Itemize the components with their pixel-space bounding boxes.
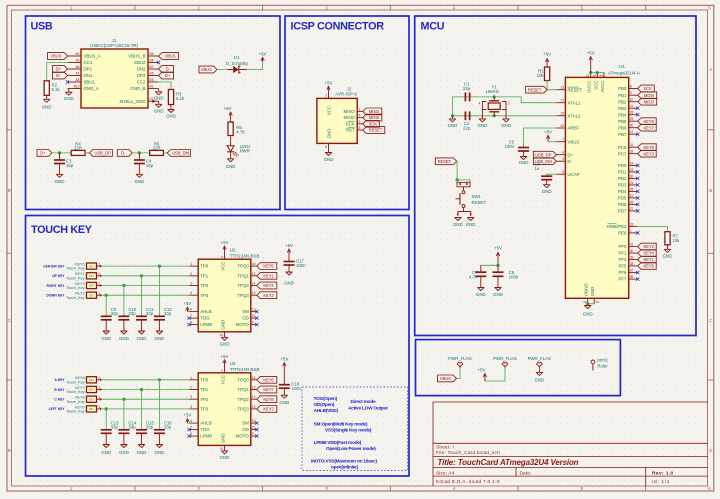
svg-text:KEY1: KEY1 (263, 273, 274, 278)
power +5V (C7 C8) (494, 246, 502, 266)
svg-text:LPMB: LPMB (200, 434, 212, 439)
svg-text:GND: GND (453, 222, 463, 227)
svg-text:print1: print1 (597, 357, 608, 362)
wire pwrflag1 to VBUS (457, 369, 461, 379)
global label VBUS (J1 right) (159, 53, 179, 60)
svg-text:GND: GND (221, 433, 226, 443)
no-connect U2 SM (255, 310, 258, 313)
no-connect PD5 (636, 196, 639, 199)
svg-text:33p: 33p (164, 425, 172, 430)
ground below C14 (119, 433, 129, 455)
svg-text:B12: B12 (74, 85, 80, 89)
svg-text:B8: B8 (150, 59, 154, 63)
svg-text:KEY: KEY (89, 274, 94, 278)
svg-text:TTP224N-BSB: TTP224N-BSB (230, 253, 260, 258)
ground below C8 (493, 276, 503, 297)
capacitor C13 (101, 420, 119, 433)
connector J1 USB-C(CSP-USC16-TR) (68, 38, 159, 108)
wire KEY7 to U3 TP1 (97, 388, 190, 390)
capacitor C10 (118, 307, 136, 320)
global label KEY8 (MCU) (638, 118, 657, 125)
svg-text:+5V: +5V (224, 106, 232, 111)
wire pwrflag2 to +5V (485, 369, 505, 381)
svg-text:KEY: KEY (89, 378, 94, 382)
svg-text:B: B (8, 188, 11, 193)
svg-text:SBU1: SBU1 (84, 80, 96, 85)
svg-text:PD7: PD7 (618, 209, 627, 214)
svg-text:2: 2 (508, 102, 510, 106)
svg-text:Touch_Key: Touch_Key (66, 410, 84, 414)
svg-text:U3: U3 (230, 361, 236, 366)
capacitor C14 (118, 420, 136, 433)
power +5V (VBUS pin) (544, 129, 552, 141)
svg-text:33p: 33p (146, 425, 154, 430)
svg-text:30: 30 (630, 124, 634, 128)
svg-text:DN2: DN2 (137, 67, 146, 72)
no-connect U2 LPMB (188, 323, 191, 326)
svg-text:GND: GND (583, 311, 593, 316)
svg-text:Sheet: /: Sheet: / (436, 445, 454, 451)
junction D- C4 (138, 151, 141, 154)
resistor R4 (71, 141, 85, 155)
svg-text:GND: GND (137, 336, 147, 341)
svg-text:Touch_Key: Touch_Key (66, 286, 84, 290)
capacitor C9 (101, 307, 119, 320)
svg-text:10k: 10k (537, 73, 545, 78)
led LED1 PWR (227, 137, 251, 157)
ground below C7 (476, 276, 486, 297)
svg-text:MCU: MCU (421, 21, 445, 33)
power +5V (U2 VCC) (221, 240, 229, 254)
svg-text:TPQ0: TPQ0 (237, 264, 249, 269)
svg-text:RIGHT KEY: RIGHT KEY (47, 284, 66, 288)
svg-text:5: 5 (581, 486, 584, 491)
capacitor C17 (284, 258, 307, 268)
capacitor C6 (535, 161, 553, 179)
svg-text:VCC: VCC (221, 261, 226, 270)
resistor R7 (665, 232, 680, 245)
ground below R3 (166, 105, 176, 119)
connector J2 AVR-ISP-6 (317, 87, 363, 150)
global label D- (filter) (117, 150, 132, 157)
svg-text:SCK: SCK (346, 121, 355, 126)
wire MCU gnd (588, 303, 595, 305)
power +5V (U3 AHLB) (183, 413, 191, 423)
ground crystal case right (501, 119, 511, 128)
svg-text:GND: GND (137, 450, 147, 455)
svg-text:GND: GND (119, 336, 129, 341)
svg-text:GND: GND (279, 400, 289, 405)
svg-text:100n: 100n (509, 274, 519, 279)
svg-text:PF1: PF1 (618, 251, 627, 256)
svg-text:+5V: +5V (280, 357, 288, 362)
global label D+ (J1 left) (53, 66, 68, 73)
mcu U1 ATmega32U4-A (556, 64, 640, 304)
svg-text:16: 16 (252, 376, 256, 380)
junction KEY7 row (140, 388, 143, 391)
svg-text:RESET: RESET (528, 87, 542, 92)
power +5V (C17) (285, 243, 293, 261)
svg-text:OD: OD (242, 427, 249, 432)
wire KEY8 to U3 TP2 (97, 398, 190, 400)
svg-text:PE6: PE6 (618, 231, 627, 236)
junction VCC (596, 71, 599, 74)
svg-text:KEY3: KEY3 (263, 407, 274, 412)
svg-text:33p: 33p (164, 311, 172, 316)
capacitor C4 (134, 153, 154, 168)
svg-text:PB7: PB7 (618, 132, 627, 137)
svg-text:1: 1 (630, 229, 632, 233)
junction SHELL_GND (152, 100, 155, 103)
svg-text:Date:: Date: (520, 471, 532, 477)
global label RESET (ICSP) (363, 127, 385, 134)
wire CC2 to R3 (159, 82, 172, 90)
svg-text:KEY: KEY (89, 407, 94, 411)
svg-text:22p: 22p (463, 86, 471, 91)
global label KEY3 (MCU) (638, 150, 657, 157)
svg-text:Direct mode: Direct mode (351, 399, 376, 404)
svg-text:U1: U1 (619, 64, 625, 69)
svg-text:GND: GND (101, 450, 111, 455)
svg-text:Title: TouchCard ATmega32U4 Ve: Title: TouchCard ATmega32U4 Version (438, 458, 579, 467)
svg-text:GND: GND (166, 113, 176, 118)
svg-text:File: Touch_Card.kicad_sch: File: Touch_Card.kicad_sch (436, 450, 500, 456)
svg-text:GND: GND (519, 160, 529, 165)
svg-text:USB-C(CSP-USC16-TR): USB-C(CSP-USC16-TR) (90, 43, 138, 48)
ground below C12 (155, 320, 165, 341)
svg-text:32: 32 (630, 150, 634, 154)
svg-text:+5V: +5V (325, 80, 333, 85)
junction KEY1 row (140, 274, 143, 277)
ground GND_A (64, 89, 74, 102)
junction KEY3 row (122, 284, 125, 287)
svg-text:PWR: PWR (240, 149, 250, 154)
junction C8 rail (496, 264, 499, 267)
svg-text:RESET: RESET (567, 87, 582, 92)
svg-text:MOTO: MOTO (236, 322, 250, 327)
touch pad KEY8 (66, 395, 100, 403)
svg-text:KEY7: KEY7 (643, 125, 654, 130)
global label KEY9 (MCU) (638, 144, 657, 151)
global label USB_DM (MCU) (533, 158, 556, 165)
svg-text:PB3: PB3 (618, 106, 627, 111)
power +5V (U2 AHLB) (183, 301, 191, 311)
key name LEFT KEY (49, 407, 66, 411)
svg-text:4: 4 (562, 151, 564, 155)
svg-text:ICSP CONNECTOR: ICSP CONNECTOR (291, 21, 385, 33)
svg-text:6: 6 (190, 308, 192, 312)
svg-text:GND: GND (154, 109, 164, 114)
wire KEY2 to U2 TP3 (97, 294, 190, 296)
svg-text:MOTO: MOTO (236, 434, 250, 439)
power +5V (ICSP) (325, 80, 333, 92)
svg-text:1: 1 (190, 262, 192, 266)
svg-text:MOSI: MOSI (369, 115, 379, 120)
ground below C5 (519, 151, 529, 165)
svg-text:10: 10 (220, 333, 224, 337)
svg-text:TOG(Open): TOG(Open) (314, 396, 338, 401)
svg-text:2: 2 (325, 94, 327, 98)
power +5V (pwr flag) (478, 367, 487, 381)
no-connect PD2 (636, 177, 639, 180)
junction D+ C3 (58, 151, 61, 154)
capacitor C16 (154, 420, 172, 433)
svg-text:PD2: PD2 (618, 176, 627, 181)
svg-text:GND: GND (220, 455, 230, 460)
svg-text:5.1k: 5.1k (52, 87, 61, 92)
svg-text:Touch_Key: Touch_Key (66, 390, 84, 394)
svg-text:VBUS: VBUS (165, 54, 176, 59)
svg-text:SHELL_GND: SHELL_GND (119, 99, 145, 104)
svg-text:KEY7: KEY7 (263, 387, 274, 392)
svg-text:5.1k: 5.1k (176, 96, 185, 101)
capacitor C8 (493, 265, 519, 279)
svg-text:A4: A4 (75, 52, 79, 56)
svg-text:4: 4 (453, 486, 456, 491)
title block (433, 402, 708, 486)
svg-text:TP0: TP0 (200, 264, 209, 269)
power flag 3 (GND) (528, 356, 552, 369)
svg-text:GND: GND (155, 336, 165, 341)
svg-text:RESET: RESET (472, 200, 487, 205)
svg-text:GND: GND (535, 377, 545, 382)
global label VBUS (to D1) (199, 66, 217, 73)
global label D+ (J1 right) (159, 72, 174, 79)
svg-text:6: 6 (325, 145, 327, 149)
ground SHELL_GND (153, 101, 163, 113)
svg-text:KEY2: KEY2 (263, 293, 274, 298)
svg-text:27: 27 (630, 207, 634, 211)
svg-text:33: 33 (630, 222, 634, 226)
svg-text:7: 7 (190, 314, 192, 318)
svg-text:5: 5 (581, 5, 584, 10)
svg-text:PB1: PB1 (618, 93, 627, 98)
touch pad KEY5 (66, 262, 100, 270)
svg-text:+5V: +5V (543, 51, 551, 56)
junction gnd rail (451, 114, 454, 117)
svg-text:D-: D- (567, 159, 572, 164)
svg-text:12: 12 (252, 308, 256, 312)
svg-text:VCC: VCC (326, 106, 331, 115)
svg-text:MISO: MISO (343, 109, 355, 114)
svg-text:PB4: PB4 (618, 112, 627, 117)
svg-text:B: B (709, 188, 712, 193)
svg-text:GND: GND (101, 336, 111, 341)
no-connect U2 OD (255, 316, 258, 319)
global label KEY5 (MCU) (638, 263, 657, 270)
global label KEY3 (U3 TPQ3) (257, 406, 277, 413)
svg-text:13: 13 (561, 86, 565, 90)
svg-text:SCK: SCK (643, 86, 652, 91)
ground MCU (583, 306, 593, 317)
svg-text:LPMB:VDD(Fast mode): LPMB:VDD(Fast mode) (314, 440, 362, 445)
global label MOSI (363, 114, 382, 121)
svg-text:6: 6 (708, 486, 711, 491)
svg-text:8: 8 (190, 432, 192, 436)
svg-text:U2: U2 (230, 247, 236, 252)
touch controller U2 TTP224N-BSB (189, 247, 259, 337)
svg-text:KEY6: KEY6 (263, 377, 274, 382)
svg-text:TOG: TOG (200, 427, 210, 432)
key name UP KEY (52, 274, 65, 278)
global label RESET (SW1) (435, 158, 457, 165)
wire KEY3 to U2 TP2 (97, 284, 190, 286)
ground below C13 (101, 433, 111, 455)
no-connect PF6 (636, 271, 639, 274)
svg-text:B1: B1 (150, 85, 154, 89)
svg-text:DN1: DN1 (84, 73, 93, 78)
no-connect PB7 (636, 133, 639, 136)
touch pad KEY7 (66, 386, 100, 394)
svg-text:GND_B: GND_B (130, 86, 145, 91)
junction crystal top (493, 95, 496, 98)
svg-text:GND: GND (590, 287, 595, 297)
svg-text:12: 12 (630, 130, 634, 134)
svg-text:D+: D+ (165, 73, 171, 78)
svg-text:KEY4: KEY4 (643, 251, 654, 256)
wire RESET to SW1 (457, 161, 470, 182)
svg-text:21: 21 (586, 74, 590, 78)
svg-text:33p: 33p (128, 311, 136, 316)
svg-text:9: 9 (252, 321, 254, 325)
global label D+ (filter) (37, 150, 52, 157)
svg-text:PB5: PB5 (618, 119, 627, 124)
svg-text:100n: 100n (291, 386, 301, 391)
global label D- (J1 left) (53, 72, 68, 79)
ground below LED1 (226, 152, 236, 169)
svg-text:GND: GND (542, 189, 552, 194)
svg-text:GND: GND (221, 320, 226, 330)
power flag 1 (VBUS) (448, 356, 472, 369)
svg-text:RESET: RESET (438, 159, 452, 164)
svg-text:TPQ2: TPQ2 (237, 283, 249, 288)
global label KEY7 (U3 TPQ1) (257, 386, 277, 393)
capacitor C3 (54, 153, 74, 168)
svg-text:15p: 15p (66, 163, 74, 168)
no-connect U3 TOG (188, 428, 191, 431)
svg-text:18: 18 (630, 161, 634, 165)
global label SCK (MCU) (638, 85, 655, 92)
svg-text:2: 2 (197, 486, 200, 491)
svg-text:GND: GND (466, 222, 476, 227)
capacitor C15 (136, 420, 154, 433)
svg-text:33p: 33p (146, 311, 154, 316)
no-connect PE6 (636, 231, 639, 234)
junction KEY8 row (122, 398, 125, 401)
power +5V (LED) (224, 106, 233, 122)
ground below U3 (220, 451, 230, 460)
svg-text:1: 1 (359, 107, 361, 111)
svg-text:+5V: +5V (478, 367, 486, 372)
svg-text:VCC: VCC (593, 81, 598, 90)
svg-text:VCC: VCC (221, 375, 226, 384)
svg-text:2: 2 (190, 272, 192, 276)
svg-text:VBUS: VBUS (201, 67, 212, 72)
svg-text:+5V: +5V (221, 240, 229, 245)
ground below rail (448, 116, 458, 128)
wire cap C14 (123, 399, 125, 430)
svg-text:B9: B9 (150, 52, 154, 56)
svg-text:D1: D1 (234, 55, 240, 60)
ground crystal case left (478, 119, 488, 128)
svg-text:DP2: DP2 (137, 73, 146, 78)
svg-text:22p: 22p (463, 125, 471, 130)
no-connect U3 LPMB (188, 434, 191, 437)
svg-text:17: 17 (561, 99, 565, 103)
no-connect PB3 (636, 107, 639, 110)
svg-text:6: 6 (708, 5, 711, 10)
svg-text:1u: 1u (535, 166, 540, 171)
svg-text:DOWN KEY: DOWN KEY (46, 294, 65, 298)
global label KEY7 (MCU) (638, 124, 657, 131)
svg-text:GND: GND (501, 123, 511, 128)
svg-text:PC6: PC6 (618, 145, 627, 150)
global label MISO (MCU) (638, 98, 657, 105)
svg-text:GND: GND (119, 450, 129, 455)
svg-text:15: 15 (595, 300, 599, 304)
svg-text:KEY2: KEY2 (643, 244, 654, 249)
wire cap C13 (105, 409, 107, 430)
svg-text:22: 22 (630, 194, 634, 198)
svg-text:GND: GND (324, 157, 334, 162)
svg-text:21: 21 (630, 181, 634, 185)
svg-text:22R: 22R (153, 145, 161, 150)
capacitor C12 (154, 307, 172, 320)
wire cap C12 (158, 266, 160, 316)
svg-text:20: 20 (630, 174, 634, 178)
capacitor C5 (504, 139, 529, 151)
ground below C10 (119, 320, 129, 341)
svg-text:SM:Open(Multi Key mode): SM:Open(Multi Key mode) (314, 421, 368, 426)
svg-text:TP2: TP2 (200, 283, 209, 288)
svg-text:+5V: +5V (544, 129, 552, 134)
svg-text:Touch_Key: Touch_Key (66, 276, 84, 280)
svg-text:AVR-ISP-6: AVR-ISP-6 (335, 92, 357, 97)
svg-text:D-: D- (166, 67, 171, 72)
svg-text:AHLB: AHLB (200, 309, 212, 314)
svg-text:VBUS_B: VBUS_B (128, 54, 145, 59)
svg-text:PD5: PD5 (618, 196, 627, 201)
svg-text:UCAP: UCAP (567, 172, 579, 177)
svg-text:3: 3 (562, 157, 564, 161)
svg-text:5: 5 (359, 126, 361, 130)
svg-text:C KEY: C KEY (54, 398, 65, 402)
global label MISO (363, 108, 382, 115)
svg-text:8: 8 (190, 321, 192, 325)
wire VBUS pin (548, 141, 556, 143)
power flag 2 (+5V) (493, 356, 517, 369)
svg-text:HWB/PE2: HWB/PE2 (607, 224, 627, 229)
svg-text:B7: B7 (150, 65, 154, 69)
no-connect U3 MOTO (255, 434, 258, 437)
svg-text:open(infinite): open(infinite) (331, 464, 359, 469)
svg-text:TP2: TP2 (200, 397, 209, 402)
svg-text:GND: GND (493, 292, 503, 297)
wire KEY9 to U3 TP3 (97, 408, 190, 410)
svg-text:TPQ1: TPQ1 (237, 387, 249, 392)
svg-text:15: 15 (252, 386, 256, 390)
wire D1 to +5V (247, 62, 263, 70)
svg-text:Touch_Key: Touch_Key (66, 400, 84, 404)
svg-text:31: 31 (630, 143, 634, 147)
svg-text:PWR_FLAG: PWR_FLAG (528, 356, 552, 361)
wire KEY5 to U2 TP0 (97, 265, 190, 267)
touch pad KEY2 (66, 291, 100, 299)
svg-text:SW1: SW1 (472, 194, 482, 199)
USB section box (26, 16, 281, 210)
svg-text:19: 19 (630, 168, 634, 172)
svg-text:7: 7 (190, 426, 192, 430)
